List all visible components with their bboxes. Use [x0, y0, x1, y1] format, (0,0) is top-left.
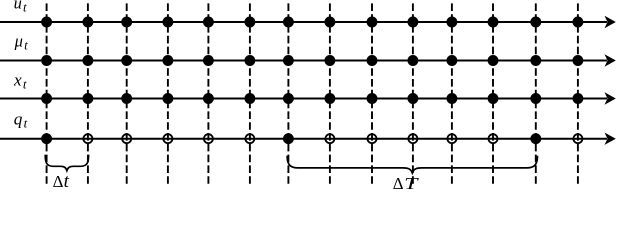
- axis arrow q_t: [0, 133, 616, 145]
- dashed gridline t4: [207, 3, 209, 185]
- timing diagram: sampled signals u_t, mu_t, x_t, q_t: [0, 0, 618, 190]
- sample dots row mu_t: [41, 55, 583, 66]
- axis arrow mu_t: [0, 54, 616, 66]
- svg-text:T: T: [404, 175, 419, 190]
- dashed gridline t1: [87, 3, 89, 185]
- dashed gridline t0: [46, 3, 48, 185]
- dashed gridline t10: [451, 3, 453, 185]
- open circles row q_t (held values): [83, 134, 582, 143]
- sample dots row u_t: [41, 17, 583, 28]
- dashed gridline t8: [371, 3, 373, 185]
- dashed gridline t5: [249, 3, 251, 185]
- svg-text:t: t: [64, 171, 70, 190]
- sample dots row x_t: [41, 93, 583, 104]
- brace Delta-t (one sampling period): [45, 155, 88, 171]
- brace Delta-T (one macro period): [287, 156, 537, 173]
- axis arrow x_t: [0, 92, 616, 104]
- dashed gridline t12: [535, 3, 537, 185]
- dashed gridline t7: [329, 3, 331, 185]
- dashed gridline t13: [577, 3, 579, 185]
- dashed gridline t9: [412, 3, 414, 185]
- svg-text:Δ: Δ: [393, 174, 404, 190]
- dashed gridline t11: [492, 3, 494, 185]
- svg-text:Δ: Δ: [53, 172, 64, 190]
- dashed gridline t3: [167, 3, 169, 185]
- svg-text:ut: ut: [14, 0, 27, 15]
- axis arrow u_t: [0, 16, 616, 28]
- dashed gridline t6: [287, 3, 289, 185]
- dashed gridline t2: [126, 3, 128, 185]
- filled sample dots row q_t (update instants): [41, 133, 541, 144]
